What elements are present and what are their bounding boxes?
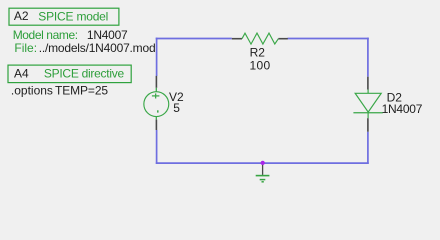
svg-text:SPICE model: SPICE model: [38, 9, 108, 23]
svg-text:TEMP=25: TEMP=25: [55, 84, 108, 98]
svg-text:File:: File:: [14, 41, 37, 55]
wire left vertical upper: [156, 38, 158, 76]
model name text: [13, 28, 128, 42]
svg-text:R2: R2: [250, 46, 266, 60]
voltage source V2: [144, 76, 169, 130]
wire bottom horizontal: [156, 162, 369, 164]
model file text: [14, 41, 155, 55]
svg-text:1N4007: 1N4007: [382, 102, 423, 116]
ground: [256, 163, 270, 182]
diode D2: [353, 77, 382, 132]
annotation box A2 SPICE model: [9, 8, 119, 25]
annotation box A4 SPICE directive: [8, 65, 131, 83]
junction node dot: [261, 161, 265, 165]
wire top-right horizontal: [288, 38, 369, 40]
svg-text:100: 100: [250, 59, 271, 73]
wire left vertical lower: [156, 130, 158, 164]
svg-text:SPICE directive: SPICE directive: [44, 66, 125, 80]
svg-text:5: 5: [173, 101, 180, 115]
svg-text:A4: A4: [14, 66, 29, 80]
svg-text:../models/1N4007.mod: ../models/1N4007.mod: [39, 41, 156, 55]
svg-text:.options: .options: [11, 84, 53, 98]
svg-text:1N4007: 1N4007: [87, 28, 128, 42]
wire top-left horizontal: [156, 38, 232, 40]
svg-text:Model name:: Model name:: [13, 28, 78, 42]
resistor R2: [232, 33, 288, 44]
wire right vertical upper: [367, 38, 369, 77]
svg-text:A2: A2: [14, 9, 29, 23]
wire right vertical lower: [367, 132, 369, 164]
